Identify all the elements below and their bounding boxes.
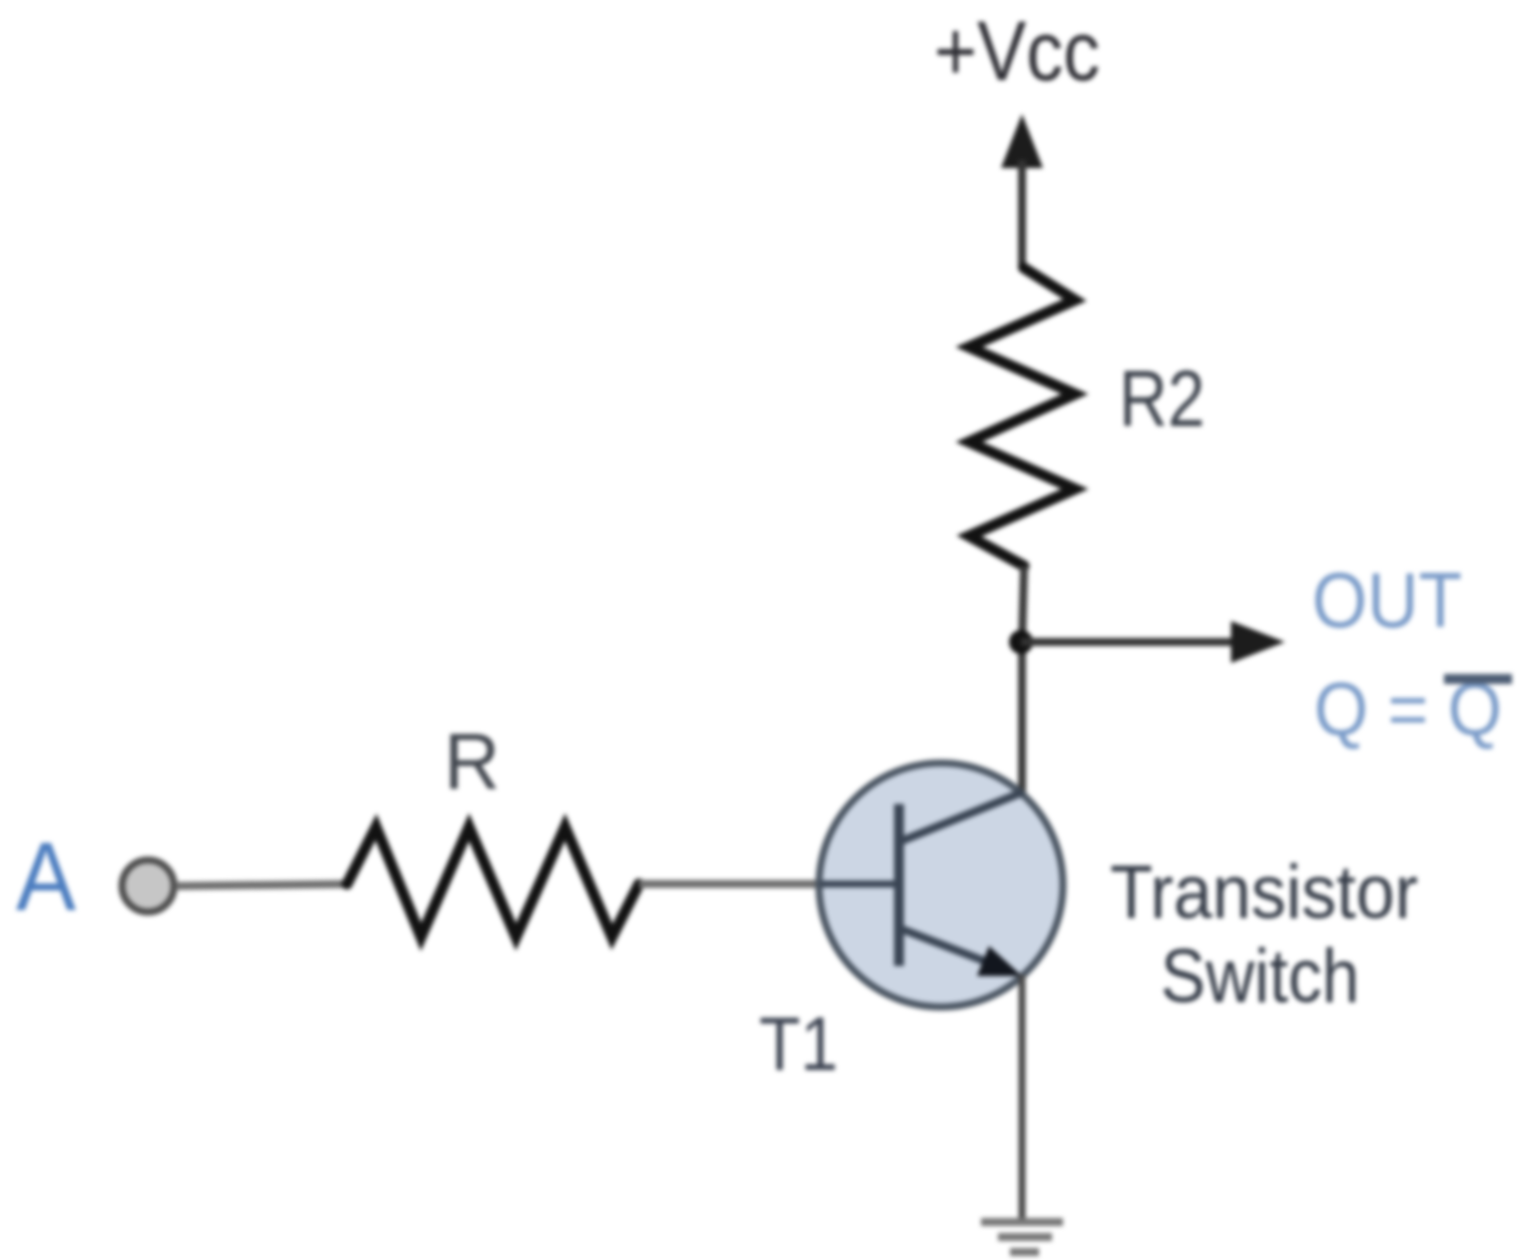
input terminal circle: [122, 860, 174, 912]
resistor R2 value label: [1119, 354, 1205, 443]
svg-text:Transistor: Transistor: [1110, 850, 1418, 935]
svg-text:OUT: OUT: [1312, 556, 1462, 644]
resistor R: [347, 827, 639, 937]
wire R2 to node: [1022, 566, 1024, 644]
wire node to OUT: [1021, 638, 1240, 646]
svg-text:Switch: Switch: [1161, 934, 1360, 1019]
wire emitter to ground: [1019, 975, 1026, 1221]
wire R to base: [639, 880, 830, 888]
svg-text:A: A: [16, 822, 76, 931]
power supply arrow (Vcc): [1001, 114, 1043, 270]
resistor R2: [969, 268, 1075, 566]
net OUT label: [1312, 556, 1462, 644]
ground: [981, 1222, 1063, 1252]
OUT arrowhead: [1231, 621, 1285, 663]
transistor annotation: Transistor Switch: [1110, 850, 1418, 1019]
input terminal A label: [16, 822, 76, 931]
resistor R value label: [444, 717, 500, 806]
wire Vcc to R2: [1022, 266, 1024, 268]
net Q = Qbar label: [1314, 667, 1512, 751]
wire A to R: [176, 884, 350, 886]
net +Vcc label: [934, 4, 1100, 98]
svg-text:R2: R2: [1119, 354, 1205, 443]
svg-text:+Vcc: +Vcc: [934, 4, 1100, 98]
node junction dot: [1009, 630, 1033, 654]
transistor T1 reference label: [759, 1002, 838, 1087]
svg-text:T1: T1: [759, 1002, 838, 1087]
transistor T1: [819, 763, 1063, 1007]
svg-text:R: R: [444, 717, 500, 806]
wire node to collector: [1018, 640, 1026, 800]
